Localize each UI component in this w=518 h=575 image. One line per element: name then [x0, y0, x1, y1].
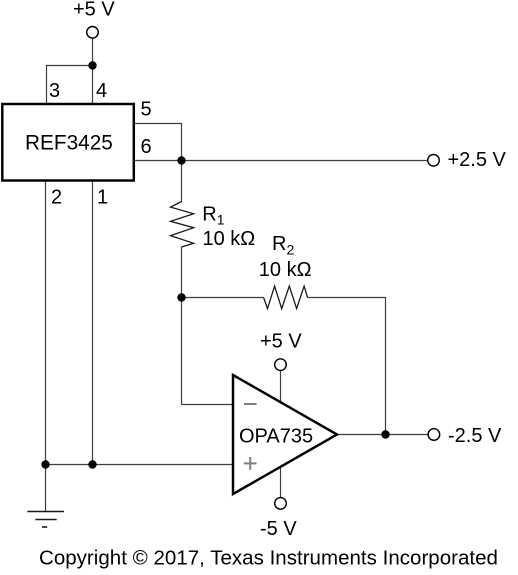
svg-text:6: 6 [141, 136, 152, 158]
svg-text:3: 3 [49, 80, 60, 102]
svg-text:OPA735: OPA735 [239, 426, 313, 448]
svg-text:10 kΩ: 10 kΩ [259, 259, 312, 281]
svg-text:Copyright © 2017, Texas Instru: Copyright © 2017, Texas Instruments Inco… [39, 547, 498, 570]
svg-text:2: 2 [51, 187, 62, 209]
svg-text:+5 V: +5 V [73, 0, 115, 21]
svg-text:-2.5 V: -2.5 V [448, 425, 502, 447]
svg-text:-5 V: -5 V [260, 518, 297, 540]
svg-text:REF3425: REF3425 [25, 132, 113, 155]
svg-text:5: 5 [141, 98, 152, 120]
svg-text:10 kΩ: 10 kΩ [203, 228, 256, 250]
svg-text:+2.5 V: +2.5 V [448, 149, 507, 171]
svg-text:R1: R1 [202, 204, 224, 228]
svg-text:4: 4 [96, 80, 107, 102]
svg-text:+5 V: +5 V [260, 330, 302, 352]
svg-text:1: 1 [97, 187, 108, 209]
svg-text:R2: R2 [272, 233, 294, 257]
